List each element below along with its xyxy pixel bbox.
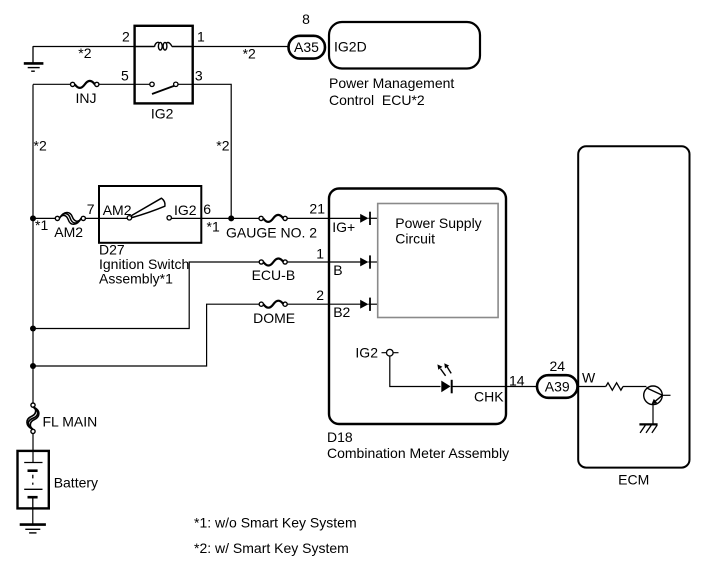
svg-text:*2: *2 [34,137,47,153]
svg-text:B: B [333,262,342,278]
svg-text:IG2: IG2 [355,344,378,360]
ground (battery) [20,525,46,533]
svg-text:24: 24 [550,358,566,374]
switch contact AM2 [127,216,131,220]
svg-text:DOME: DOME [253,310,295,326]
ECM box [578,146,689,467]
svg-text:1: 1 [316,245,324,261]
wire ground to relay pin 2 [33,46,135,48]
wire battery to ground [32,508,34,524]
switch blade (wedge) [131,198,165,217]
svg-text:Power Supply: Power Supply [395,215,481,231]
svg-text:*1: *1 [207,218,220,234]
svg-text:D18: D18 [327,429,353,445]
LED CHK (indicator) [437,363,451,393]
svg-text:8: 8 [302,11,310,27]
diode (B) [360,255,378,268]
connector A39 [537,375,578,398]
svg-text:IG2D: IG2D [334,39,367,55]
fuse ECU-B [259,259,287,266]
svg-text:W: W [582,370,596,386]
wire bus to GAUGE fuse [201,217,360,219]
svg-text:3: 3 [195,67,203,83]
svg-text:AM2: AM2 [103,202,132,218]
fuse GAUGE NO. 2 [259,215,287,222]
svg-text:A39: A39 [545,378,570,394]
wire FL MAIN to battery [32,434,34,463]
wire A39 to resistor [578,386,606,388]
wire INJ row [33,83,135,85]
svg-text:2: 2 [316,287,324,303]
wire relay pin3 to bus (right vertical) [193,84,232,218]
svg-text:Ignition Switch: Ignition Switch [99,256,189,272]
relay IG2 box [135,26,193,104]
wire LED to A39 [451,386,537,388]
svg-text:7: 7 [87,201,95,217]
node junction ECU-B [30,326,36,332]
svg-text:*1: w/o Smart Key System: *1: w/o Smart Key System [194,515,357,531]
wire inside D27 [99,217,201,219]
svg-text:*2: *2 [216,137,229,153]
fuse INJ [71,81,99,88]
wire bus AM2 [33,217,99,219]
svg-text:*2: *2 [78,45,91,61]
node junction DOME [30,363,36,369]
ECU block IG2D [329,22,480,69]
svg-text:Battery: Battery [54,475,98,491]
svg-text:ECM: ECM [618,471,649,487]
svg-text:ECU-B: ECU-B [252,267,296,283]
resistor (ECM) [606,383,623,390]
diode (B2) [360,298,378,311]
svg-text:Control ECU*2: Control ECU*2 [329,92,425,108]
svg-text:*2: w/ Smart Key System: *2: w/ Smart Key System [194,540,349,556]
svg-text:D27: D27 [99,241,125,257]
diode (IG+) [360,212,378,225]
ground (ECM) [639,424,657,433]
transistor Q (ECM) [644,386,671,424]
connector A35 [289,36,326,59]
svg-text:IG2: IG2 [174,202,197,218]
fusible link AM2 [55,212,85,224]
node junction left (bus) [30,215,36,221]
svg-text:*1: *1 [35,217,48,233]
wire DOME row [33,304,361,366]
svg-text:Circuit: Circuit [395,231,435,247]
switch contact IG2 [167,216,171,220]
node junction right (bus) [228,215,234,221]
svg-text:Combination Meter Assembly: Combination Meter Assembly [327,445,509,461]
svg-text:*2: *2 [243,45,256,61]
relay contact left [150,82,154,86]
fuse DOME [259,301,287,308]
switch D27 box [99,186,201,243]
svg-text:INJ: INJ [76,90,97,106]
relay coil [135,42,193,50]
svg-text:IG2: IG2 [151,106,174,122]
ground (top left) [24,46,44,71]
svg-text:CHK: CHK [474,389,504,405]
power supply circuit box [378,204,498,318]
wire resistor to transistor [623,386,646,388]
wire relay pin1 to A35 [193,46,289,48]
relay blade [152,86,174,94]
svg-text:2: 2 [122,29,130,45]
relay switch wires [135,83,193,85]
svg-text:A35: A35 [294,39,319,55]
svg-text:FL MAIN: FL MAIN [43,413,98,429]
svg-text:Power Management: Power Management [329,75,454,91]
svg-text:IG+: IG+ [332,219,355,235]
svg-text:21: 21 [309,200,325,216]
svg-text:1: 1 [197,29,205,45]
relay contact right [174,82,178,86]
svg-text:GAUGE NO. 2: GAUGE NO. 2 [226,224,317,240]
wire left vertical (ground leg to bus) [32,85,34,406]
svg-text:Assembly*1: Assembly*1 [99,271,173,287]
meter D18 box [329,189,506,425]
svg-text:B2: B2 [333,304,350,320]
battery [18,451,49,509]
fusible link FL MAIN [27,403,39,434]
svg-text:AM2: AM2 [54,224,83,240]
wire IG2 to LED [390,356,441,387]
svg-text:14: 14 [509,372,525,388]
svg-text:6: 6 [203,201,211,217]
terminal IG2 (meter) [355,344,398,360]
svg-text:5: 5 [121,67,129,83]
wire ECU-B row [33,262,361,329]
